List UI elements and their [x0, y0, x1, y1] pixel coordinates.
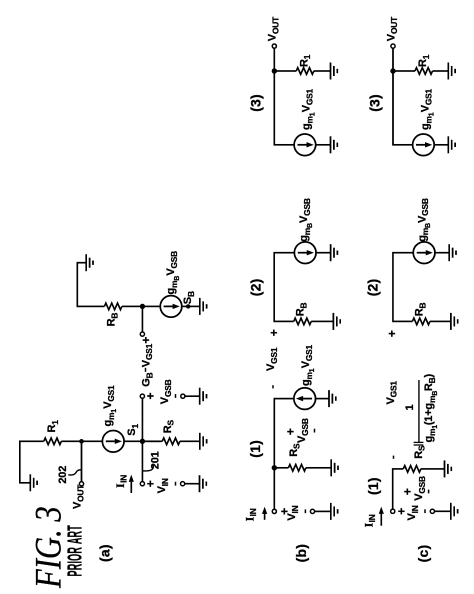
svg-text:GB: GB — [141, 372, 155, 386]
wire: source to ground (c2) — [435, 252, 449, 254]
wire: rail of (b2) with corners — [274, 253, 294, 322]
wire: gap terminal to RB junction (a) — [141, 306, 143, 332]
svg-text:VOUT: VOUT — [267, 16, 281, 41]
wire: source to ground (c3) — [434, 144, 448, 146]
arrow IIN (c1) — [379, 507, 384, 526]
wire: RB to ground (c2) — [430, 320, 451, 322]
wire: rail of (b3) with left corner — [274, 48, 294, 145]
ground (RSpar of c1) — [445, 460, 452, 477]
label + input of (b2) — [267, 329, 281, 336]
label VOUT (a) — [72, 484, 86, 509]
label - of VGSB source (a) — [175, 394, 177, 398]
svg-text:(c): (c) — [415, 545, 431, 563]
label (1) of row c — [365, 477, 381, 495]
wire: rail of (b1) with right corner down to source — [274, 399, 294, 510]
ground (source of c3) — [448, 136, 455, 153]
label (2) of row c — [365, 279, 381, 297]
label (1) of row b — [247, 440, 263, 458]
label (3) of row b — [248, 94, 264, 112]
svg-text:VOUT: VOUT — [72, 484, 86, 509]
label + of VIN (b1) — [278, 508, 292, 515]
resistor RS (b1) — [288, 465, 306, 472]
label + of VIN (c1) — [395, 508, 409, 515]
terminal right of gap (a) — [140, 332, 144, 336]
label - of floating VGSB (b1) — [314, 429, 316, 433]
wire: R1 to ground (c3) — [433, 70, 449, 72]
label gm1 VGS1 (b3) — [301, 88, 317, 130]
label R1 (a) — [46, 420, 60, 433]
label R1 (c3) — [417, 54, 431, 67]
label floating VGSB (c1) — [413, 476, 427, 501]
label gmB VGSB (b2) — [298, 198, 314, 242]
wire: VGSB- to ground (a) — [185, 395, 200, 397]
label + of VIN (a) — [143, 480, 157, 487]
terminal VIN+ (c1) — [391, 509, 395, 513]
current source gm1*VGS1 (b1) — [294, 388, 316, 410]
svg-text:RS: RS — [162, 419, 176, 433]
svg-text:(3): (3) — [248, 94, 264, 112]
label VOUT (b3) — [267, 16, 281, 41]
resistor R1 (a) — [44, 438, 62, 445]
label node GB — [141, 372, 155, 386]
ground (RB of c2) — [451, 313, 458, 330]
wire: rail of (c2) with corners — [393, 253, 413, 322]
ground (VIN of c1) — [451, 503, 458, 520]
label - of VIN (c1) — [424, 509, 426, 513]
label gmB VGSB (a) — [165, 251, 181, 295]
svg-text:+: + — [139, 337, 153, 344]
wire: junction down to R1 (b3) — [274, 70, 296, 72]
svg-text:+: + — [385, 330, 399, 337]
svg-text:gm1VGS1: gm1VGS1 — [300, 344, 316, 386]
svg-text:VIN: VIN — [156, 478, 170, 493]
parallel bars of RS|| (c1) — [414, 442, 424, 445]
label + of dependent source gap — [139, 337, 153, 344]
label IIN (c1) — [361, 514, 377, 527]
label SB — [182, 291, 196, 304]
terminal VOUT (b3) — [272, 44, 276, 48]
ground (RS of b1) — [331, 459, 338, 476]
ground (VIN of b1) — [331, 503, 338, 520]
svg-text:RB: RB — [414, 303, 428, 317]
wire: source to ground (b1) — [316, 398, 330, 400]
ground (RB of b2) — [333, 313, 340, 330]
FIG. 3 title — [29, 506, 69, 589]
label 202 with lead squiggle — [57, 466, 69, 484]
ground (RS of a) — [200, 433, 207, 450]
wire: rail of (c1) with corner down to RSpar — [393, 469, 404, 509]
wire: RS to ground (b1) — [306, 467, 331, 469]
ground (VGSB of a) — [200, 388, 207, 405]
label gmB VGSB (c2) — [416, 198, 432, 242]
label gm1 VGS1 (b1) — [300, 344, 316, 386]
PRIOR ART subtitle — [65, 525, 87, 577]
svg-text:+: + — [144, 392, 158, 399]
svg-text:IIN: IIN — [113, 475, 129, 488]
svg-text:(2): (2) — [365, 279, 381, 297]
terminal VIN- (b1) — [310, 509, 314, 513]
label VGSB source (a) — [159, 379, 173, 404]
label (2) of row b — [248, 278, 264, 296]
label output VGS1 (c1) — [385, 381, 399, 405]
svg-text:VGS1: VGS1 — [265, 347, 279, 371]
label (a) — [97, 544, 113, 562]
svg-text:+: + — [284, 428, 298, 435]
resistor RB (c2) — [412, 318, 430, 325]
terminal VGSB- (a) — [181, 394, 185, 398]
label floating VGSB (b1) — [296, 418, 310, 443]
fraction bar 1/gm1(1+gmB RB) (c1) — [418, 380, 420, 443]
label RB (b2) — [295, 303, 309, 317]
svg-text:gmBVGSB: gmBVGSB — [165, 251, 181, 295]
label output VGS1 (b1) — [265, 347, 279, 371]
label VIN (a) — [156, 478, 170, 493]
ground (source of b1) — [329, 390, 336, 407]
terminal GB (a) — [140, 394, 144, 398]
svg-text:202: 202 — [57, 466, 69, 484]
svg-text:RB: RB — [295, 303, 309, 317]
wire: source to ground (b2) — [316, 252, 331, 254]
resistor RB (b2) — [294, 318, 312, 325]
label S1 — [126, 424, 140, 436]
current source gm1*VGS1 (c3) — [413, 134, 435, 156]
current source gmB*VGSB (a) — [160, 296, 182, 318]
svg-text:VGS1: VGS1 — [140, 343, 154, 367]
terminal VIN+ (a) — [140, 482, 144, 486]
svg-text:(1): (1) — [247, 440, 263, 458]
svg-text:PRIOR ART: PRIOR ART — [65, 525, 87, 577]
label - of dependent source gap — [145, 368, 147, 372]
terminal VOUT (c3) — [391, 44, 395, 48]
label RB (a) — [106, 313, 120, 327]
wire: VOUT branch (a) — [81, 441, 83, 481]
svg-text:VOUT: VOUT — [385, 16, 399, 41]
svg-text:gm1VGS1: gm1VGS1 — [102, 385, 118, 427]
label VIN (b1) — [286, 505, 300, 520]
node R1 junction (b3) — [272, 68, 277, 73]
wire: RB to ground (b2) — [311, 320, 333, 322]
svg-text:VGSB: VGSB — [413, 476, 427, 501]
wire: R1 to ground (b3) — [314, 70, 331, 72]
svg-text:R1: R1 — [417, 54, 431, 67]
svg-text:gmBVGSB: gmBVGSB — [416, 198, 432, 242]
ground (source of b3) — [331, 136, 338, 153]
resistor RS parallel (c1) — [403, 466, 421, 473]
svg-text:gm1VGS1: gm1VGS1 — [420, 88, 436, 130]
wire: R1 to current source (a) — [61, 440, 102, 442]
wire: circuit (a) top corner to left ground — [20, 441, 44, 483]
wire: gmB source to ground (a) — [182, 305, 200, 307]
wire: VIN- to ground (a) — [185, 483, 200, 485]
current source gmB*VGSB (b2) — [294, 242, 316, 264]
svg-text:(2): (2) — [248, 278, 264, 296]
node junction at VOUT branch (a) — [79, 439, 84, 444]
svg-text:R1: R1 — [298, 54, 312, 67]
wire: junction down to R1 (c3) — [393, 70, 415, 72]
label RS (a) — [162, 419, 176, 433]
label 201 with lead squiggle — [149, 451, 161, 469]
node RS junction (b1) — [272, 465, 277, 470]
svg-text:gm1(1+gmBRB): gm1(1+gmBRB) — [423, 373, 439, 442]
label (3) of row c — [367, 94, 383, 112]
arrow IIN (a) — [129, 475, 134, 493]
label RB (c2) — [414, 303, 428, 317]
label R1 (b3) — [298, 54, 312, 67]
svg-text:201: 201 — [149, 451, 161, 469]
svg-text:IIN: IIN — [361, 514, 377, 527]
label VIN (c1) — [406, 505, 420, 520]
resistor R1 (b3) — [296, 68, 314, 75]
wire: RB top corner to ground (a) — [77, 263, 104, 307]
node RB junction (a) — [140, 304, 145, 309]
label (c) — [415, 545, 431, 563]
current source gm1*VGS1 (b3) — [294, 134, 316, 156]
label - of output VGS1 (b1) — [272, 385, 274, 388]
label - at RSpar top (c1) — [393, 456, 395, 459]
wire: S1 to VIN terminal (a) — [141, 441, 143, 481]
label + of floating VGSB (c1) — [401, 488, 415, 495]
terminal VOUT (a) — [79, 482, 83, 486]
resistor RB (a) — [104, 303, 122, 310]
label (b) — [293, 544, 309, 562]
svg-text:FIG. 3: FIG. 3 — [29, 506, 69, 589]
svg-text:RS: RS — [413, 445, 427, 459]
label VGS1 of dependent source gap — [140, 343, 154, 367]
label denominator gm1(1+gmB RB) (c1) — [423, 373, 439, 442]
label - of VIN (b1) — [304, 509, 306, 513]
svg-text:RS: RS — [288, 443, 302, 457]
resistor R1 (c3) — [415, 68, 433, 75]
label IIN (b1) — [242, 508, 258, 521]
ground (source of b2) — [331, 244, 338, 261]
svg-text:1: 1 — [404, 404, 416, 410]
svg-text:VGSB: VGSB — [159, 379, 173, 404]
current source gmB*VGSB (c2) — [413, 242, 435, 264]
wire: RB junction up to RB (a) — [122, 305, 142, 307]
svg-text:(a): (a) — [97, 544, 113, 562]
svg-text:S1: S1 — [126, 424, 140, 436]
node S1 (a) — [140, 439, 145, 444]
wire: junction down to RS (b1) — [274, 467, 288, 469]
label IIN (a) — [113, 475, 129, 488]
label - of VIN (a) — [175, 482, 177, 486]
ground (VIN of a) — [200, 475, 207, 492]
label + input of (c2) — [385, 330, 399, 337]
ground (gmB source of a) — [200, 298, 207, 315]
label gm1 VGS1 (a) — [102, 385, 118, 427]
label RS (b1) — [288, 443, 302, 457]
wire: RSpar to ground (c1) — [421, 468, 445, 470]
svg-text:(1): (1) — [365, 477, 381, 495]
label + of floating VGSB (b1) — [284, 428, 298, 435]
svg-text:VGSB: VGSB — [296, 418, 310, 443]
terminal VIN- (c1) — [430, 509, 434, 513]
svg-text:(3): (3) — [367, 94, 383, 112]
svg-text:VGS1: VGS1 — [385, 381, 399, 405]
svg-text:gm1VGS1: gm1VGS1 — [301, 88, 317, 130]
wire: S1 down to RS (a) — [142, 440, 162, 442]
wire: source to ground (b3) — [316, 144, 331, 146]
ground (source of c2) — [449, 244, 456, 261]
wire: VIN- to ground (c1) — [435, 510, 451, 512]
svg-text:IIN: IIN — [242, 508, 258, 521]
resistor RS (a) — [162, 438, 180, 445]
svg-text:+: + — [267, 329, 281, 336]
svg-text:gmBVGSB: gmBVGSB — [298, 198, 314, 242]
ground (RB of a) — [86, 254, 93, 271]
label gm1 VGS1 (c3) — [420, 88, 436, 130]
wire: VIN- to ground (b1) — [315, 510, 331, 512]
svg-text:(b): (b) — [293, 544, 309, 562]
label - of floating VGSB (c1) — [428, 490, 430, 494]
node R1 junction (c3) — [390, 68, 395, 73]
wire: RB junction down to gmB source (a) — [142, 305, 160, 307]
wire: rail of (c3) with left corner — [393, 48, 413, 145]
label RS parallel (c1) — [413, 445, 427, 459]
ground (top-left of a) — [30, 474, 37, 491]
wire: RS to ground (a) — [180, 440, 200, 442]
current source gm1*VGS1 (a) — [102, 431, 124, 453]
wire: current source to S1 (a) — [124, 440, 160, 442]
svg-text:RB: RB — [106, 313, 120, 327]
node SB (a) — [186, 304, 190, 308]
label VOUT (c3) — [385, 16, 399, 41]
ground (R1 of b3) — [331, 63, 338, 80]
label numerator 1 (c1) — [404, 404, 416, 410]
arrow IIN (b1) — [262, 507, 267, 520]
svg-text:R1: R1 — [46, 420, 60, 433]
terminal VIN- (a) — [181, 482, 185, 486]
terminal VIN+ (b1) — [272, 509, 276, 513]
wire: S1 to GB terminal (a) — [141, 398, 143, 441]
svg-text:SB: SB — [182, 291, 196, 304]
label + of VGSB source (a) — [144, 392, 158, 399]
ground (R1 of c3) — [448, 63, 455, 80]
